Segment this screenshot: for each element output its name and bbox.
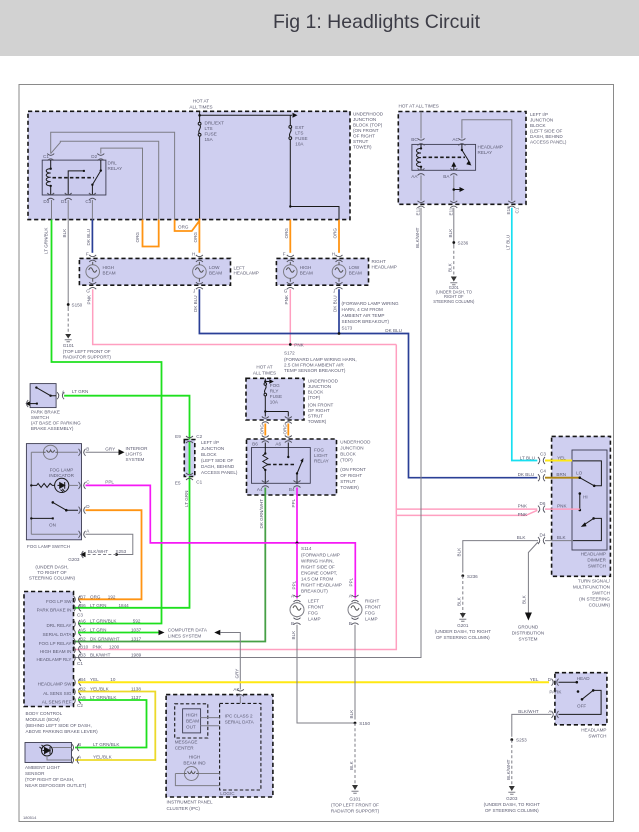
svg-text:LEFT: LEFT [308, 599, 319, 604]
bulb left high beam [86, 262, 100, 282]
fog switch left bus wire [30, 452, 32, 534]
svg-text:G203: G203 [68, 557, 80, 562]
svg-text:FOG: FOG [365, 611, 375, 616]
svg-text:G101: G101 [63, 343, 75, 348]
svg-text:HEADLAMP SW: HEADLAMP SW [38, 682, 73, 687]
svg-text:C3: C3 [85, 199, 91, 204]
svg-text:S236: S236 [458, 241, 469, 246]
bulb left low beam [193, 262, 207, 282]
node S150 (fog lamps) [354, 722, 357, 725]
svg-text:LINES SYSTEM: LINES SYSTEM [168, 633, 202, 638]
svg-text:C: C [86, 480, 90, 485]
node S172 [289, 343, 292, 346]
svg-text:AMBIENT LIGHT: AMBIENT LIGHT [25, 765, 60, 770]
svg-text:A6: A6 [275, 441, 281, 446]
svg-text:C2: C2 [77, 703, 83, 708]
svg-text:HEADLAMP: HEADLAMP [581, 728, 606, 733]
svg-text:(UNDER DASH,: (UNDER DASH, [35, 565, 68, 570]
svg-text:(TOP LEFT FRONT OF: (TOP LEFT FRONT OF [63, 349, 111, 354]
svg-text:BLOCK (TOP): BLOCK (TOP) [353, 123, 383, 128]
bulb right low beam [332, 262, 346, 282]
svg-text:S253: S253 [116, 549, 127, 554]
wire A7 into IPC class2 [239, 696, 241, 703]
svg-text:PARK BRAKE IN: PARK BRAKE IN [37, 607, 72, 612]
svg-text:PNK: PNK [294, 342, 304, 347]
fog lamp switch box [26, 444, 81, 540]
svg-text:UNDERHOOD: UNDERHOOD [308, 379, 339, 384]
headlamp switch PARK contact [577, 690, 580, 693]
svg-text:14.5 CM FROM: 14.5 CM FROM [301, 577, 333, 582]
svg-text:1989: 1989 [131, 653, 142, 658]
headlamp relay coil [417, 148, 422, 166]
wire BLK dashed to G101 (fog) [354, 723, 356, 785]
svg-text:SERIAL DATA: SERIAL DATA [42, 632, 72, 637]
svg-text:C3: C3 [77, 612, 83, 617]
svg-text:LOGIC: LOGIC [220, 791, 235, 796]
park brake switch blade [35, 386, 37, 388]
node S173 [338, 332, 341, 335]
svg-text:OF STEERING COLUMN): OF STEERING COLUMN) [485, 808, 539, 813]
svg-text:LT BLU: LT BLU [520, 455, 535, 460]
svg-text:(FORWARD LAMP WIRING HARN,: (FORWARD LAMP WIRING HARN, [284, 357, 357, 362]
svg-text:H: H [192, 252, 195, 257]
svg-text:LOW: LOW [209, 265, 220, 270]
fog switch LED indicator [30, 484, 32, 486]
svg-text:D1: D1 [61, 199, 67, 204]
svg-text:BLK: BLK [517, 535, 527, 540]
svg-text:BLK/WHT: BLK/WHT [90, 653, 111, 658]
svg-text:180514: 180514 [23, 815, 37, 820]
svg-text:S114: S114 [301, 546, 312, 551]
headlamp dimmer switch outer box [552, 436, 611, 576]
svg-text:ENGINE COMPT,: ENGINE COMPT, [301, 571, 337, 576]
svg-text:DK BLU: DK BLU [193, 295, 198, 312]
wire ORG to right low beam H [338, 220, 340, 253]
svg-text:F: F [283, 252, 286, 257]
svg-text:JUNCTION: JUNCTION [530, 118, 553, 123]
svg-text:PNK: PNK [86, 294, 91, 304]
svg-text:DRL RELAY: DRL RELAY [46, 623, 71, 628]
svg-text:ACCESS PANEL): ACCESS PANEL) [530, 140, 567, 145]
svg-text:INDICATOR: INDICATOR [49, 473, 75, 478]
fog rly fuse box [246, 378, 304, 420]
wire DK BLU from C3 to left high beam F [91, 200, 93, 220]
svg-text:(TOP): (TOP) [308, 395, 321, 400]
svg-text:TOWER): TOWER) [340, 485, 359, 490]
svg-text:BEAM: BEAM [103, 270, 116, 275]
svg-text:B: B [86, 447, 89, 452]
svg-text:SERIAL DATA: SERIAL DATA [225, 720, 255, 725]
wire C1 diagonal loop B [51, 141, 159, 219]
svg-text:PARK BRAKE: PARK BRAKE [31, 410, 60, 415]
svg-text:1317: 1317 [131, 637, 142, 642]
message center box [175, 704, 208, 738]
right headlamp box [276, 258, 368, 285]
svg-text:FUSE: FUSE [205, 132, 217, 137]
underhood junction block (top left) [28, 111, 350, 219]
wire PNK into dimmer [545, 508, 580, 510]
svg-text:STRUT: STRUT [340, 479, 356, 484]
svg-text:(IN STEERING: (IN STEERING [579, 597, 610, 602]
svg-text:BLOCK: BLOCK [340, 452, 357, 457]
svg-text:S150: S150 [359, 721, 370, 726]
svg-text:TOWER): TOWER) [353, 145, 372, 150]
ambient light sensor box [25, 743, 72, 763]
svg-text:DK BLU: DK BLU [333, 295, 338, 312]
svg-text:AC: AC [452, 137, 459, 142]
svg-text:(TOP RIGHT OF DASH,: (TOP RIGHT OF DASH, [25, 777, 74, 782]
IPC outer box [166, 695, 273, 797]
ground G203 [509, 786, 515, 791]
svg-text:BLK/WHT: BLK/WHT [518, 709, 539, 714]
svg-text:C1: C1 [77, 661, 83, 666]
svg-text:BREAKOUT): BREAKOUT) [301, 589, 328, 594]
svg-text:HEADLAMP: HEADLAMP [581, 552, 606, 557]
svg-text:B6: B6 [252, 441, 258, 446]
wire BLK right fog lamp to S150 [354, 625, 356, 720]
svg-text:10A: 10A [295, 142, 304, 147]
svg-text:BEAM: BEAM [300, 270, 313, 275]
svg-text:LTS: LTS [205, 126, 213, 131]
svg-text:HI: HI [583, 495, 588, 500]
svg-text:TEMP SENSOR BREAKOUT): TEMP SENSOR BREAKOUT) [284, 368, 346, 373]
svg-text:COMPUTER DATA: COMPUTER DATA [168, 627, 208, 632]
svg-text:OF STEERING COLUMN): OF STEERING COLUMN) [436, 635, 490, 640]
svg-text:(ON FRONT: (ON FRONT [340, 467, 366, 472]
left I/P junction block (top right) [398, 112, 526, 205]
svg-text:RIGHT: RIGHT [372, 259, 386, 264]
wire BRN into dimmer [545, 477, 580, 479]
svg-text:FUSE: FUSE [270, 394, 282, 399]
wire ORG jog fuse1 to left low beam H [175, 219, 200, 253]
headlamp relay actuator dashed [423, 156, 465, 158]
svg-text:HEADLAMP RLY: HEADLAMP RLY [36, 657, 71, 662]
pin fuse out 2 [285, 417, 292, 424]
svg-text:PNK: PNK [557, 504, 567, 509]
svg-text:DK GRN/WHT: DK GRN/WHT [259, 499, 264, 529]
svg-text:S150: S150 [72, 303, 83, 308]
fuse EXT LTS FUSE 10A [289, 126, 292, 140]
BCM box [24, 592, 74, 707]
svg-text:STRUT: STRUT [353, 139, 369, 144]
svg-text:(BEHIND LEFT SIDE OF DASH,: (BEHIND LEFT SIDE OF DASH, [26, 723, 92, 728]
svg-text:YEL/BLK: YEL/BLK [93, 755, 113, 760]
ground G301 [451, 277, 457, 282]
headlamp switch HEAD contact [559, 681, 577, 683]
svg-text:BEAM: BEAM [186, 719, 199, 724]
svg-text:BLK/WHT: BLK/WHT [506, 759, 511, 780]
svg-text:J: J [193, 289, 195, 294]
svg-text:BLK: BLK [457, 547, 462, 557]
junction block E9/C2 (small) [184, 440, 195, 477]
svg-text:STEERING COLUMN): STEERING COLUMN) [29, 576, 76, 581]
wire AC up over to E10 [462, 120, 512, 201]
svg-text:RLY: RLY [270, 389, 279, 394]
svg-text:(LEFT SIDE OF: (LEFT SIDE OF [530, 129, 563, 134]
svg-text:WIRING HARN,: WIRING HARN, [301, 559, 334, 564]
svg-text:BLK: BLK [291, 630, 296, 640]
wire hot feed vertical into fuses [199, 111, 201, 220]
svg-text:(ON FRONT: (ON FRONT [308, 403, 334, 408]
svg-text:LIGHTS: LIGHTS [126, 451, 143, 456]
svg-text:STEERING COLUMN): STEERING COLUMN) [433, 299, 475, 304]
svg-text:SENSOR: SENSOR [25, 771, 45, 776]
svg-text:(UNDER DASH, TO RIGHT: (UNDER DASH, TO RIGHT [484, 802, 540, 807]
wire PPL fog switch C to S114 run [86, 485, 356, 598]
svg-text:B: B [291, 621, 294, 626]
svg-text:CLUSTER (IPC): CLUSTER (IPC) [167, 806, 201, 811]
arrow ground distribution system [525, 613, 532, 621]
svg-text:ORG: ORG [333, 228, 338, 239]
pin fuse out 1 [262, 417, 269, 424]
wire BLK/WHT dashed to G203 [511, 740, 513, 786]
svg-text:ORG: ORG [90, 594, 101, 599]
DRL relay switch common D1 [68, 171, 84, 195]
svg-text:592: 592 [133, 619, 141, 624]
svg-text:AA: AA [411, 174, 418, 179]
wire LT GRN park brake to E9/C2 block and BCM B6 [64, 396, 189, 608]
svg-text:C1: C1 [514, 207, 519, 213]
svg-text:JUNCTION: JUNCTION [308, 384, 331, 389]
wire BLK into dimmer [545, 540, 573, 542]
svg-text:DAGH, BEHIND: DAGH, BEHIND [201, 464, 235, 469]
svg-text:MULTIFUNCTION: MULTIFUNCTION [573, 585, 610, 590]
ground G101 (left) [65, 334, 71, 339]
wire BLK/WHT fog switch A to S253 [86, 534, 133, 554]
fog switch ON stub [31, 517, 53, 519]
svg-text:PNK: PNK [284, 294, 289, 304]
svg-text:B6: B6 [80, 603, 86, 608]
wire PNK right high G [289, 289, 291, 344]
svg-text:C3: C3 [540, 452, 546, 457]
wire YEL into dimmer [545, 460, 572, 462]
svg-text:LAMP: LAMP [365, 617, 378, 622]
node S236 (lower) [461, 574, 464, 577]
svg-text:BLOCK: BLOCK [308, 390, 325, 395]
svg-text:BLK: BLK [349, 709, 354, 719]
svg-text:A6: A6 [80, 619, 86, 624]
fog switch blade [52, 501, 55, 504]
wire DK GRN/WHT A4 to BCM B2 [74, 488, 266, 642]
node S114 [296, 542, 299, 545]
svg-text:LT GRN: LT GRN [72, 389, 88, 394]
wire dashed to G203 arrow [85, 554, 117, 556]
wire BA down to E11 with offpage arrow [453, 175, 455, 200]
wire BLK dashed to G301 [453, 246, 455, 277]
svg-text:LEFT I/P: LEFT I/P [530, 112, 548, 117]
wire PNK branch to dimmer D6 [396, 508, 537, 510]
svg-text:TOWER): TOWER) [308, 419, 327, 424]
svg-text:1844: 1844 [119, 603, 130, 608]
svg-text:S253: S253 [516, 738, 527, 743]
svg-text:FOG LP RELAY: FOG LP RELAY [39, 641, 72, 646]
svg-text:S172: S172 [284, 351, 295, 356]
svg-text:D: D [548, 677, 552, 682]
svg-text:J: J [333, 289, 335, 294]
svg-text:BODY CONTROL: BODY CONTROL [26, 711, 63, 716]
park brake switch case ground [30, 403, 37, 405]
wire GRY computer data to IPC A7 [214, 630, 220, 636]
svg-text:BRN: BRN [556, 472, 566, 477]
svg-text:LEFT I/P: LEFT I/P [201, 440, 219, 445]
svg-text:RIGHT HEADLAMP: RIGHT HEADLAMP [301, 583, 342, 588]
svg-text:(TOP): (TOP) [340, 458, 353, 463]
svg-text:BLK: BLK [456, 596, 461, 606]
svg-text:OFF: OFF [577, 703, 586, 708]
svg-text:HEAD: HEAD [577, 676, 590, 681]
wire LT BLU from E10 to dimmer C3 [512, 208, 538, 461]
headlamp relay blade from AC [462, 144, 470, 163]
dimmer LO contact frame [573, 461, 602, 486]
svg-text:PNK: PNK [93, 645, 103, 650]
svg-text:(LEFT SIDE OF: (LEFT SIDE OF [201, 458, 234, 463]
fuse FOG RLY FUSE 10A [264, 383, 267, 396]
svg-text:10A: 10A [270, 400, 279, 405]
wire PPL B4 to S114 [296, 488, 298, 543]
pin E11 [450, 201, 457, 208]
fog light relay outer box [247, 439, 337, 495]
svg-text:PPL: PPL [291, 498, 296, 507]
wire D2 loop [101, 148, 143, 220]
wire YEL B4 to headlamp switch D [78, 681, 549, 683]
svg-text:E10: E10 [506, 206, 511, 215]
left headlamp box [79, 258, 230, 285]
svg-text:ALL TIMES: ALL TIMES [253, 370, 276, 375]
dimmer LO blade [579, 476, 582, 479]
svg-text:C2: C2 [196, 434, 202, 439]
svg-text:SWITCH: SWITCH [592, 591, 610, 596]
svg-text:STRUT: STRUT [308, 414, 324, 419]
headlamp relay box [412, 144, 476, 170]
svg-text:LT GRN: LT GRN [90, 603, 106, 608]
svg-text:D2: D2 [91, 154, 97, 159]
svg-text:B7: B7 [80, 594, 86, 599]
svg-text:(FORWARD LAMP WIRING: (FORWARD LAMP WIRING [342, 301, 400, 306]
svg-text:FOG: FOG [308, 611, 318, 616]
headlamp relay BA contact arrow [453, 167, 455, 171]
svg-text:D: D [86, 504, 90, 509]
high beam out box [183, 709, 201, 733]
wires high beam out to class2 [201, 718, 220, 726]
svg-text:INSTRUMENT PANEL: INSTRUMENT PANEL [167, 800, 213, 805]
fog relay actuator dashed [267, 464, 296, 466]
svg-text:JUNCTION: JUNCTION [353, 117, 376, 122]
svg-text:(AT BASE OF PARKING: (AT BASE OF PARKING [31, 421, 81, 426]
svg-text:BLK: BLK [557, 535, 567, 540]
svg-text:LIGHT: LIGHT [314, 453, 328, 458]
svg-text:B: B [349, 621, 352, 626]
svg-text:EXT: EXT [295, 125, 304, 130]
svg-text:HARN, 4 CM FROM: HARN, 4 CM FROM [342, 307, 384, 312]
svg-text:MESSAGE: MESSAGE [175, 740, 198, 745]
wire GRY to interior lights system [86, 451, 119, 453]
svg-text:IPC CLASS 2: IPC CLASS 2 [225, 714, 253, 719]
svg-text:GRY: GRY [234, 669, 239, 679]
svg-text:ORG: ORG [259, 424, 264, 435]
svg-text:DK BLU: DK BLU [86, 229, 91, 246]
svg-text:HIGH: HIGH [186, 713, 197, 718]
svg-text:(TOP LEFT FRONT OF: (TOP LEFT FRONT OF [331, 803, 379, 808]
svg-text:FRONT: FRONT [365, 605, 381, 610]
IPC class 2 serial data box [220, 703, 261, 790]
svg-text:INTERIOR: INTERIOR [126, 446, 149, 451]
svg-text:(FORWARD LAMP: (FORWARD LAMP [301, 553, 340, 558]
svg-text:G201: G201 [457, 623, 469, 628]
svg-text:D4: D4 [540, 533, 546, 538]
wire LT GRN/BLK from D3 down to BCM A6 [51, 200, 53, 220]
svg-text:G203: G203 [506, 796, 518, 801]
svg-text:SYSTEM: SYSTEM [126, 457, 145, 462]
svg-text:A: A [86, 528, 90, 533]
svg-text:B10: B10 [80, 645, 89, 650]
svg-text:BLK/WHT: BLK/WHT [415, 227, 420, 248]
svg-text:AL SENS SIG: AL SENS SIG [43, 691, 72, 696]
wire BLK/WHT from E12 down to BCM B3 [74, 208, 422, 658]
svg-text:RELAY: RELAY [478, 150, 493, 155]
svg-text:HOT AT: HOT AT [256, 365, 272, 370]
svg-text:ACCESS PANEL): ACCESS PANEL) [201, 470, 238, 475]
svg-text:15A: 15A [205, 137, 214, 142]
svg-text:BLK: BLK [62, 228, 67, 238]
svg-text:HEADLAMP: HEADLAMP [372, 265, 397, 270]
svg-text:HIGH: HIGH [189, 755, 200, 760]
svg-text:BLK: BLK [349, 760, 354, 770]
svg-text:C1: C1 [196, 479, 202, 484]
park brake switch box [30, 384, 56, 408]
svg-text:LT GRN/BLK: LT GRN/BLK [93, 742, 120, 747]
svg-text:C4: C4 [540, 469, 546, 474]
svg-text:S236: S236 [467, 574, 478, 579]
DRL relay switch blade [92, 160, 100, 195]
node hot bus junction [198, 114, 201, 117]
svg-text:LAMP: LAMP [308, 617, 321, 622]
bulb high beam indicator [184, 767, 198, 781]
svg-text:RIGHT: RIGHT [365, 599, 379, 604]
svg-text:PPL: PPL [105, 480, 114, 485]
node S236 (upper) [452, 241, 455, 244]
svg-text:SENSOR BREAKOUT): SENSOR BREAKOUT) [342, 319, 390, 324]
svg-text:TURN SIGNAL/: TURN SIGNAL/ [578, 579, 611, 584]
wire BLK from D1 to S150 [67, 200, 69, 308]
svg-text:BLK: BLK [522, 594, 527, 604]
svg-text:NEAR DEFOGGER OUTLET): NEAR DEFOGGER OUTLET) [25, 783, 87, 788]
pin E10 / C1 [508, 201, 515, 208]
svg-text:FOG LAMP SWITCH: FOG LAMP SWITCH [27, 544, 70, 549]
wire ORG fog switch D to BCM B7 [78, 510, 142, 599]
svg-text:YEL: YEL [530, 677, 539, 682]
headlamp switch outer box [555, 673, 607, 725]
svg-text:RELAY: RELAY [108, 166, 123, 171]
svg-text:F: F [86, 252, 89, 257]
svg-text:ORG: ORG [193, 232, 198, 243]
svg-text:OUT: OUT [186, 725, 196, 730]
svg-text:FOG LAMP: FOG LAMP [50, 468, 74, 473]
wire hot to BC [420, 112, 422, 139]
svg-text:E11: E11 [448, 207, 453, 215]
fog light relay inner box [252, 448, 311, 484]
wire BLK D4 branch to ground distribution [528, 542, 538, 613]
ground G201 [460, 613, 466, 618]
wire PNK second branch to dimmer D6 [396, 510, 537, 515]
svg-text:FRONT: FRONT [308, 605, 324, 610]
wire DK BLU left low J to S173 run [199, 289, 537, 478]
DRL relay coil [46, 169, 51, 186]
svg-text:D6: D6 [540, 501, 546, 506]
svg-text:HOT AT: HOT AT [193, 99, 209, 104]
svg-text:PPL: PPL [291, 580, 296, 589]
svg-text:DK GRN/WHT: DK GRN/WHT [90, 637, 120, 642]
wire ORG U-loop under box [143, 220, 159, 247]
